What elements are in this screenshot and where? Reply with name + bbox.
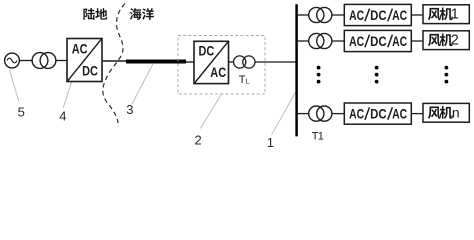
svg-text:AC: AC — [349, 34, 364, 49]
svg-text:DC: DC — [370, 106, 387, 121]
svg-text:AC: AC — [392, 34, 407, 49]
svg-text:DC: DC — [370, 34, 387, 49]
svg-text:AC: AC — [349, 8, 364, 23]
svg-text:1: 1 — [451, 7, 459, 23]
svg-text:T1: T1 — [312, 131, 324, 143]
svg-text:DC: DC — [370, 8, 387, 23]
svg-text:TL: TL — [239, 74, 250, 86]
svg-text:AC: AC — [210, 64, 226, 80]
svg-text:1: 1 — [267, 135, 274, 150]
svg-text:4: 4 — [59, 108, 66, 123]
svg-text:5: 5 — [18, 104, 25, 119]
svg-text:AC: AC — [72, 40, 88, 56]
svg-text:2: 2 — [451, 33, 459, 49]
svg-text:n: n — [452, 105, 460, 121]
svg-text:AC: AC — [392, 106, 407, 121]
svg-text:DC: DC — [82, 62, 98, 78]
svg-text:2: 2 — [195, 133, 202, 148]
svg-text:AC: AC — [349, 106, 364, 121]
svg-text:3: 3 — [126, 102, 133, 117]
svg-text:AC: AC — [392, 8, 407, 23]
svg-text:DC: DC — [199, 42, 215, 58]
